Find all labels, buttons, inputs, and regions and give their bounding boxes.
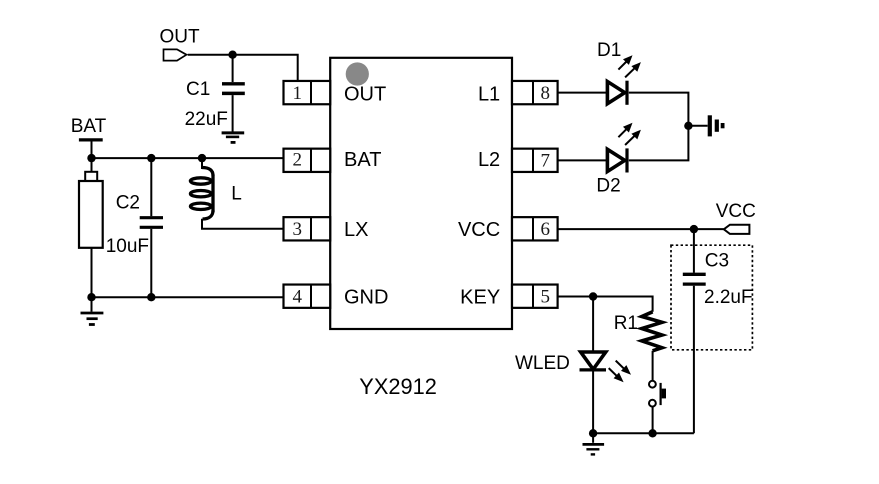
svg-text:R1: R1 [614, 313, 638, 334]
svg-text:5: 5 [541, 287, 551, 308]
svg-text:L: L [231, 184, 242, 205]
svg-text:1: 1 [293, 83, 303, 104]
svg-text:D2: D2 [596, 176, 620, 197]
svg-text:C3: C3 [705, 250, 729, 271]
svg-text:6: 6 [541, 219, 551, 240]
svg-text:GND: GND [344, 287, 388, 309]
svg-text:22uF: 22uF [185, 109, 228, 130]
svg-text:LX: LX [344, 219, 368, 241]
svg-text:C1: C1 [186, 79, 210, 100]
svg-text:BAT: BAT [344, 149, 381, 171]
svg-text:10uF: 10uF [106, 236, 149, 257]
svg-text:2: 2 [293, 149, 303, 170]
svg-text:OUT: OUT [344, 84, 386, 106]
svg-text:VCC: VCC [716, 201, 756, 222]
svg-text:4: 4 [293, 287, 303, 308]
svg-text:C2: C2 [116, 192, 140, 213]
svg-text:2.2uF: 2.2uF [704, 287, 753, 308]
svg-text:3: 3 [293, 219, 303, 240]
svg-text:L2: L2 [478, 149, 500, 171]
svg-text:VCC: VCC [458, 219, 500, 241]
svg-text:7: 7 [541, 150, 551, 171]
svg-text:OUT: OUT [160, 27, 201, 48]
svg-text:YX2912: YX2912 [359, 374, 437, 399]
svg-text:8: 8 [541, 83, 551, 104]
svg-text:BAT: BAT [71, 116, 107, 137]
svg-text:D1: D1 [597, 40, 621, 61]
svg-text:WLED: WLED [515, 353, 570, 374]
svg-text:L1: L1 [478, 84, 500, 106]
svg-text:KEY: KEY [460, 287, 500, 309]
